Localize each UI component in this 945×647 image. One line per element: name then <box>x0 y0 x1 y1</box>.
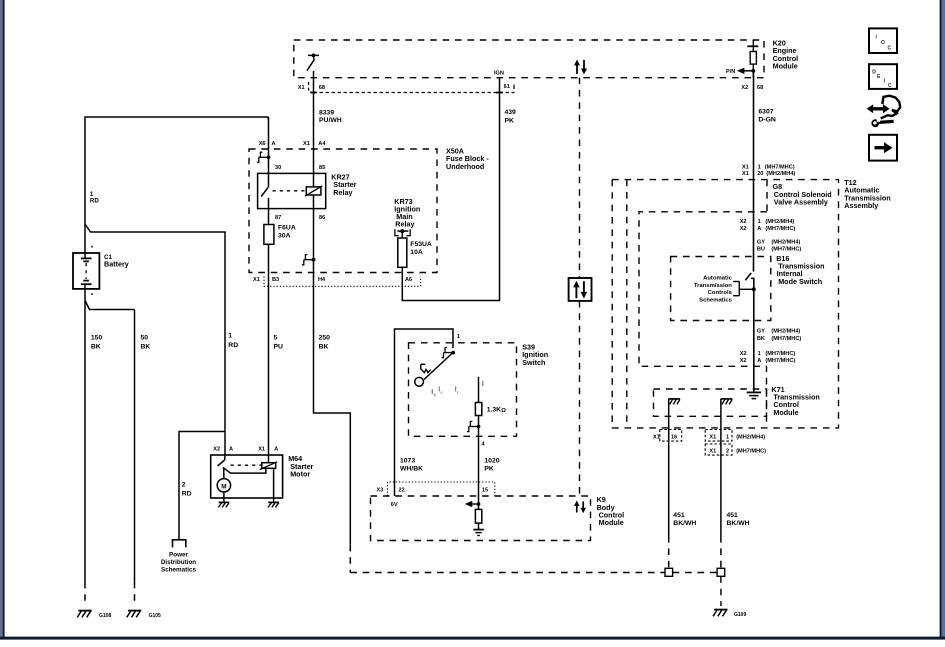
B16 Transmission Internal Mode Switch box <box>671 257 771 321</box>
svg-text:BK: BK <box>319 343 329 350</box>
svg-text:G108: G108 <box>99 613 111 619</box>
ground G108 <box>77 611 91 618</box>
svg-text:X2: X2 <box>740 219 747 225</box>
svg-text:1: 1 <box>726 434 729 440</box>
svg-text:8339: 8339 <box>319 110 334 117</box>
wire 50 BK (battery negative branch to G105) <box>85 301 150 607</box>
TCM ground wires to pins <box>669 399 721 456</box>
svg-text:RD: RD <box>182 491 192 498</box>
svg-text:A: A <box>757 358 761 364</box>
wire 451 BK/WH (right) <box>721 456 750 569</box>
svg-text:Module: Module <box>599 518 624 527</box>
svg-text:Power: Power <box>169 551 188 558</box>
svg-text:2: 2 <box>182 482 186 489</box>
BCM internal resistor <box>475 504 481 529</box>
K71 Transmission Control Module label <box>771 385 819 417</box>
BCM internal arrow on pin 15 <box>465 482 481 507</box>
X50A Fuse Block - Underhood label <box>446 147 489 171</box>
svg-text:16: 16 <box>671 434 677 440</box>
svg-text:68: 68 <box>319 85 325 91</box>
wire 451 BK/WH (left) <box>669 456 697 569</box>
svg-text:X1: X1 <box>653 434 660 440</box>
K71 Transmission Control Module box <box>654 389 767 416</box>
ECM pin 61 (IGN) <box>494 71 510 91</box>
svg-text:1: 1 <box>758 165 761 171</box>
svg-text:(MH2/MH4): (MH2/MH4) <box>771 328 800 334</box>
svg-text:X1: X1 <box>709 434 716 440</box>
svg-text:Assembly: Assembly <box>844 201 878 210</box>
svg-text:61: 61 <box>504 84 510 90</box>
svg-text:X1: X1 <box>253 277 260 283</box>
connector clip on coil wire <box>302 255 316 265</box>
svg-text:RD: RD <box>90 197 99 204</box>
svg-text:PU: PU <box>274 343 284 350</box>
svg-text:Relay: Relay <box>333 188 352 197</box>
svg-text:(MH7/MHC): (MH7/MHC) <box>771 336 801 342</box>
svg-text:1073: 1073 <box>400 458 415 465</box>
svg-text:BK/WH: BK/WH <box>673 520 696 527</box>
svg-text:439: 439 <box>505 109 517 116</box>
ignition key symbol <box>415 353 453 387</box>
TCM chassis ground (left) <box>668 399 680 405</box>
fuse block bottom connector X1 dotted outline <box>264 277 421 287</box>
connector clip below resistor <box>467 421 481 431</box>
svg-text:Valve Assembly: Valve Assembly <box>774 198 828 207</box>
svg-text:(MH7/MHC): (MH7/MHC) <box>736 448 766 454</box>
ECM pin X1 68 <box>298 85 325 91</box>
svg-text:Schematics: Schematics <box>161 567 196 574</box>
svg-text:GY: GY <box>757 328 765 334</box>
connector clip on pin 30 wire <box>257 152 271 162</box>
svg-text:30: 30 <box>275 165 281 171</box>
svg-text:(MH2/MH4): (MH2/MH4) <box>765 219 794 225</box>
serial data dashed wire (arrow box to BCM) <box>579 301 581 496</box>
pin X1 A4 (fuse block top) <box>303 141 326 147</box>
icon box forward arrow <box>869 135 897 161</box>
TCM pin connector dashed boxes <box>660 430 732 456</box>
B16 Transmission Internal Mode Switch label <box>776 254 824 286</box>
svg-text:6307: 6307 <box>758 109 773 116</box>
svg-text:Switch: Switch <box>522 358 545 367</box>
transmission connector pins X1 1 / X1 20 <box>742 165 795 178</box>
K20 Engine Control Module box <box>294 40 764 78</box>
svg-text:A4: A4 <box>318 141 326 147</box>
svg-text:WH/BK: WH/BK <box>400 465 423 472</box>
svg-text:150: 150 <box>91 335 103 342</box>
svg-text:O: O <box>881 40 885 46</box>
fuse block bottom pins X1 B3 H4 A6 <box>253 277 412 283</box>
BCM connector X3 dotted outline <box>388 482 495 496</box>
svg-text:M: M <box>221 483 226 490</box>
power distribution off-page connector <box>172 540 187 548</box>
svg-text:50: 50 <box>141 335 149 342</box>
switch inside ECM (crank request contact) <box>307 54 319 71</box>
svg-text:Motor: Motor <box>290 469 310 478</box>
svg-text:H4: H4 <box>318 277 326 283</box>
svg-text:(MH7/MHC): (MH7/MHC) <box>771 247 801 253</box>
BCM pins X3 22 15 <box>377 488 489 494</box>
svg-text:X2: X2 <box>740 358 747 364</box>
svg-text:68: 68 <box>757 85 763 91</box>
svg-text:D-GN: D-GN <box>758 116 775 123</box>
svg-text:250: 250 <box>319 335 331 342</box>
starter motor M64 box <box>211 455 283 498</box>
fuse F53UA 10A <box>398 234 432 286</box>
svg-text:X1: X1 <box>298 85 305 91</box>
wire colors GY / BK <box>757 328 801 342</box>
starter motor ground (left) <box>218 498 229 507</box>
svg-text:P/N: P/N <box>726 69 735 75</box>
hyperlink bracket to schematics <box>733 282 754 296</box>
starter solenoid switch <box>218 455 266 479</box>
wire 5 PU (fuse B3 to starter solenoid) <box>269 286 284 455</box>
svg-text:Automatic: Automatic <box>703 276 733 282</box>
starter solenoid coil <box>260 455 278 498</box>
svg-text:X3: X3 <box>377 488 384 494</box>
wire 150 BK (battery negative to G108) <box>85 289 102 606</box>
ground G109 <box>713 610 727 617</box>
svg-text:A: A <box>274 447 278 453</box>
svg-text:5: 5 <box>274 335 278 342</box>
svg-text:F53UA: F53UA <box>410 241 432 248</box>
inner assembly dashed border <box>626 180 628 428</box>
svg-text:C: C <box>888 83 892 89</box>
svg-text:22: 22 <box>399 488 405 494</box>
resistor inside ECM (P/N pull-up) <box>747 40 758 78</box>
wire 2 RD branch to power distribution <box>179 432 225 540</box>
T12 Automatic Transmission Assembly box <box>612 180 838 428</box>
svg-text:1.3K: 1.3K <box>487 407 501 414</box>
svg-text:Transmission: Transmission <box>694 283 732 289</box>
svg-text:(MH2/MH4): (MH2/MH4) <box>766 171 795 177</box>
wire 1020 PK (switch to BCM 15) <box>479 427 500 483</box>
svg-text:A: A <box>272 141 276 147</box>
svg-text:1020: 1020 <box>484 458 499 465</box>
svg-text:X1: X1 <box>258 447 265 453</box>
svg-text:BK: BK <box>91 343 101 350</box>
svg-text:85: 85 <box>319 165 325 171</box>
X50A Fuse Block - Underhood box <box>249 149 437 273</box>
KR73 relay output clip <box>395 229 410 238</box>
svg-text:(MH7/MHC): (MH7/MHC) <box>765 358 795 364</box>
S39 Ignition Switch label <box>522 343 548 367</box>
svg-text:1: 1 <box>457 334 460 340</box>
serial data arrows in BCM <box>574 500 586 513</box>
Q8 Control Solenoid Valve Assembly label <box>773 182 832 206</box>
svg-text:X1: X1 <box>742 171 749 177</box>
svg-text:X6: X6 <box>259 141 266 147</box>
svg-text:GY: GY <box>757 239 765 245</box>
wire 1073 WH/BK label <box>400 458 423 473</box>
svg-text:451: 451 <box>673 512 685 519</box>
svg-text:Schematics: Schematics <box>699 298 732 304</box>
svg-text:X1: X1 <box>742 165 749 171</box>
icon box DEIC <box>869 64 897 89</box>
wire 439 PK (fuse A6 up to ECM IGN) <box>402 78 516 301</box>
svg-text:BU: BU <box>757 247 765 253</box>
icon box IOC <box>869 28 897 53</box>
svg-text:10A: 10A <box>410 249 423 256</box>
C1 Battery label <box>104 254 129 269</box>
pin X6 A (fuse block top, battery feed) <box>259 141 276 147</box>
dashed wire splice to G109 <box>720 576 722 606</box>
svg-text:C: C <box>888 45 892 51</box>
ECM connector X1 dotted outline <box>309 82 515 93</box>
relay KR27 box <box>258 173 326 208</box>
svg-text:20: 20 <box>757 171 763 177</box>
ECM pin X2 68 <box>741 85 763 91</box>
svg-text:1: 1 <box>228 333 232 340</box>
svg-text:Controls: Controls <box>708 290 733 296</box>
svg-text:(MH2/MH4): (MH2/MH4) <box>736 434 765 440</box>
wire 250 BK (relay coil return to splice) <box>314 286 351 573</box>
svg-text:X1: X1 <box>709 448 716 454</box>
svg-text:A: A <box>229 447 233 453</box>
starter motor M circle <box>217 479 230 498</box>
resistor 1.3K in ignition switch <box>475 377 506 427</box>
BCM internal ground <box>473 530 484 536</box>
K20 Engine Control Module label <box>773 39 799 71</box>
svg-text:B3: B3 <box>272 277 279 283</box>
svg-text:PK: PK <box>484 465 494 472</box>
svg-text:IGN: IGN <box>494 71 504 77</box>
svg-text:Underhood: Underhood <box>446 162 484 171</box>
svg-text:Battery: Battery <box>104 260 129 269</box>
svg-text:451: 451 <box>727 512 739 519</box>
B16 output pins X2 1 / X2 A <box>740 351 796 364</box>
svg-text:A6: A6 <box>405 277 412 283</box>
TCM chassis ground (right) <box>721 399 733 405</box>
serial data dashed wire (ECM to arrow box) <box>579 78 581 278</box>
icon schematic navigation (arrows) <box>867 96 901 127</box>
KR73 Ignition Main Relay label <box>394 197 420 229</box>
svg-text:G105: G105 <box>149 613 161 619</box>
svg-text:X2: X2 <box>740 226 747 232</box>
ignition switch S39 box <box>409 343 517 437</box>
splice square 1 <box>665 568 673 576</box>
svg-text:Module: Module <box>773 408 798 417</box>
T12 Automatic Transmission Assembly label <box>844 178 890 210</box>
connector clip at ignition switch <box>442 348 456 358</box>
svg-text:X2: X2 <box>740 351 747 357</box>
svg-text:BK/WH: BK/WH <box>727 520 750 527</box>
ignition switch feed wire <box>395 329 454 482</box>
svg-text:15: 15 <box>482 488 488 494</box>
wire colors GY / BU <box>757 239 801 252</box>
relay KR27 switch <box>261 173 268 208</box>
svg-text:X2: X2 <box>213 447 220 453</box>
serial data arrows at ECM <box>574 60 587 75</box>
wire 8339 PU/WH (ECM X1-68 to fuse block A4) <box>314 71 342 174</box>
svg-text:Ω: Ω <box>501 408 506 414</box>
wire relay coil to H4 <box>313 209 315 286</box>
ground G105 <box>127 611 141 618</box>
KR27 Starter Relay label <box>331 173 356 197</box>
Automatic Transmission Controls Schematics label <box>694 276 733 304</box>
svg-text:(MH7/MHC): (MH7/MHC) <box>765 351 795 357</box>
battery C1 <box>73 253 99 289</box>
svg-text:Distribution: Distribution <box>161 559 196 566</box>
wire mode switch to ground <box>753 289 755 392</box>
TCM pins X1 16 / X1 1 / X1 2 <box>653 434 766 454</box>
Power Distribution Schematics label <box>161 551 197 573</box>
K9 Body Control Module label <box>597 495 625 527</box>
svg-text:G109: G109 <box>734 612 746 618</box>
wire battery positive into fuse block (1 RD riser) <box>268 117 270 174</box>
battery terminal marks <box>91 246 93 295</box>
svg-text:b: b <box>434 393 437 398</box>
wire label 1 RD (battery positive) <box>90 191 99 205</box>
svg-text:RD: RD <box>228 342 238 349</box>
starter pins X2 A / X1 A <box>213 447 278 453</box>
K9 Body Control Module box <box>371 496 591 541</box>
svg-text:(MH2/MH4): (MH2/MH4) <box>771 239 800 245</box>
wire 1 RD (battery to starter motor) <box>85 224 238 455</box>
svg-text:(MH7/MHC): (MH7/MHC) <box>765 165 795 171</box>
svg-text:1: 1 <box>758 219 761 225</box>
relay pin labels 30 85 87 86 <box>275 165 325 221</box>
Q8 Control Solenoid Valve Assembly box <box>639 180 767 428</box>
svg-text:1: 1 <box>758 351 761 357</box>
svg-text:87: 87 <box>275 215 281 221</box>
svg-text:A: A <box>757 226 761 232</box>
svg-text:BK: BK <box>757 336 765 342</box>
svg-text:PU/WH: PU/WH <box>319 117 342 124</box>
svg-text:D: D <box>872 69 876 75</box>
Q8 connector pins X2 1 / X2 A <box>740 219 796 232</box>
wire battery positive top run <box>85 117 269 253</box>
P/N arrow inside ECM <box>726 68 755 75</box>
fuse F6UA 30A <box>264 209 296 286</box>
svg-text:PK: PK <box>505 118 515 125</box>
svg-text:Relay: Relay <box>395 220 414 229</box>
svg-text:Mode Switch: Mode Switch <box>778 277 822 286</box>
svg-text:X2: X2 <box>741 85 748 91</box>
svg-text:Module: Module <box>773 61 798 70</box>
M64 Starter Motor label <box>288 454 313 478</box>
relay KR27 coil <box>273 173 323 208</box>
SIDEBARS <box>0 0 3 639</box>
svg-text:F6UA: F6UA <box>278 225 296 232</box>
svg-text:30A: 30A <box>278 233 291 240</box>
svg-text:(MH7/MHC): (MH7/MHC) <box>765 226 795 232</box>
earth ground at K71 <box>747 392 761 398</box>
svg-text:BK: BK <box>141 343 151 350</box>
svg-text:2: 2 <box>726 448 729 454</box>
wire 6307 D-GN (ECM X2-68 to transmission) <box>754 71 776 272</box>
splice bus dashed wire <box>350 572 717 574</box>
svg-text:X1: X1 <box>303 141 310 147</box>
ignition switch position marks <box>432 381 484 398</box>
svg-text:86: 86 <box>319 215 325 221</box>
splice square 2 <box>717 568 725 576</box>
BCM pin 22 stub <box>394 482 396 496</box>
serial data continuation arrow box <box>569 278 592 301</box>
B16 mode switch <box>745 273 756 291</box>
svg-text:6V: 6V <box>391 502 398 508</box>
starter solenoid ground (right) <box>268 498 279 507</box>
